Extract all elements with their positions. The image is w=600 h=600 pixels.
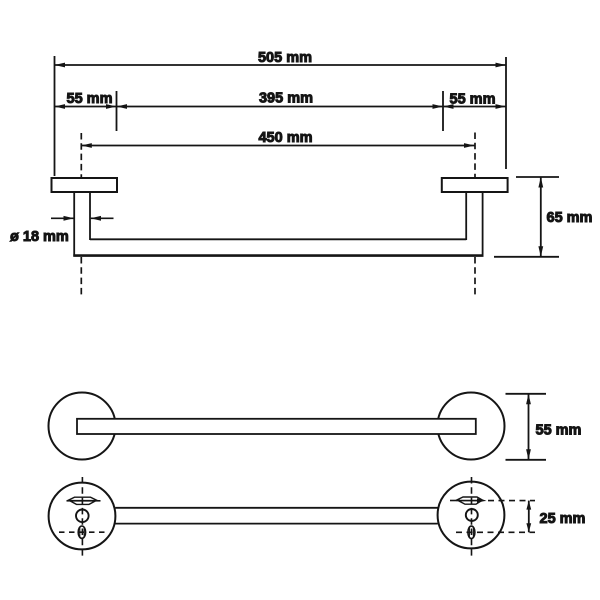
diameter 18 leader line right — [91, 217, 114, 219]
svg-text:25 mm: 25 mm — [540, 511, 586, 527]
arrow at left end of 55 mm segment — [55, 104, 66, 109]
bottom view: right anchor leader arrow — [477, 498, 487, 502]
dimension 450 mm: right arrow — [464, 143, 475, 148]
side view: bar — [77, 419, 476, 434]
left post outer edge — [73, 192, 75, 257]
bottom view: left screw hole — [76, 510, 89, 523]
bottom view: left centerline (dashed) — [81, 477, 83, 557]
dimension 450 mm: left arrow — [81, 143, 92, 148]
tick between left 55 and 395 — [116, 91, 118, 131]
bottom view: right screw body — [468, 526, 475, 538]
svg-text:505 mm: 505 mm — [258, 50, 312, 66]
wall plate left — [52, 178, 118, 192]
centerline of right post (dashed) lower part — [474, 257, 476, 298]
dimension 505 mm: left arrow — [55, 63, 66, 68]
arrow at right end of 55 mm segment — [496, 104, 507, 109]
centerline of left post (dashed) lower part — [80, 257, 82, 298]
diameter 18 left arrow — [64, 216, 75, 221]
bottom view: left screw body — [78, 526, 85, 538]
bottom view: left screw thread line b — [83, 528, 85, 538]
arrow right end of 395 mm segment — [433, 104, 444, 109]
svg-text:55 mm: 55 mm — [536, 423, 582, 439]
svg-text:395 mm: 395 mm — [259, 91, 313, 107]
left post inner edge — [89, 192, 91, 240]
25 mm dimension line — [528, 501, 530, 533]
arrow left end of 395 mm segment — [117, 104, 128, 109]
55 mm (rosette) top tick — [506, 393, 547, 395]
arrow left end of right 55 mm segment — [443, 104, 454, 109]
bottom view: left screw thread line a — [79, 528, 81, 538]
bottom view: left wall anchor whisker right — [94, 500, 101, 502]
65 mm top arrow — [538, 177, 543, 188]
centerline of left post (dashed) upper part — [80, 133, 82, 178]
diameter 18 right arrow — [91, 216, 102, 221]
dimension 450 mm: line — [81, 145, 474, 147]
centerline of right post (dashed) upper part — [474, 133, 476, 179]
svg-text:65 mm: 65 mm — [547, 210, 593, 226]
side view: right rosette circle — [438, 393, 505, 460]
bottom view: left wall anchor lower shell — [70, 501, 96, 505]
bottom view: right wall anchor whisker left — [450, 500, 460, 502]
tick between 395 and right 55 — [442, 91, 444, 131]
diameter 18 leader line left — [51, 217, 74, 219]
front view: right extension line — [505, 57, 507, 169]
bar bottom edge — [73, 254, 483, 257]
bottom view: left wall anchor upper shell — [68, 497, 98, 500]
wall plate right — [442, 178, 508, 192]
bottom view: right screw hole — [466, 509, 478, 521]
bottom view: right rosette circle — [438, 482, 505, 549]
front view: left extension line — [54, 56, 56, 176]
bottom view: right centerline (dashed) — [471, 477, 473, 558]
bottom view: left wall anchor whisker left — [67, 500, 73, 502]
25 mm bottom arrow — [526, 523, 531, 532]
55 mm (rosette) bottom tick — [506, 459, 547, 461]
65 mm dimension bottom tick — [494, 256, 559, 258]
25 mm bottom dashed leader — [456, 531, 535, 533]
bottom view: left screw axis (dashed) — [59, 531, 107, 533]
dimension 505 mm: line — [55, 64, 507, 66]
bottom view: right screw thread line b — [472, 528, 474, 538]
bottom view: bar bottom edge — [115, 523, 438, 525]
right post inner edge — [465, 192, 467, 240]
65 mm dimension line — [540, 177, 542, 257]
svg-text:55 mm: 55 mm — [450, 92, 496, 108]
bottom view: left rosette circle — [49, 483, 116, 550]
bottom view: right wall anchor upper shell — [456, 497, 483, 500]
bottom view: bar top edge — [115, 507, 438, 509]
bar top edge — [90, 238, 466, 240]
side view: left rosette circle — [49, 393, 116, 460]
bottom view: right wall anchor lower shell — [459, 501, 482, 505]
55 mm (rosette) top arrow — [526, 394, 531, 405]
25 mm top arrow — [526, 501, 531, 510]
65 mm dimension top tick — [516, 176, 559, 178]
25 mm top dashed leader — [488, 500, 535, 502]
dimension row 55/395/55: line — [55, 106, 507, 108]
55 mm (rosette) bottom arrow — [526, 449, 531, 460]
bottom view: right screw thread line a — [468, 528, 470, 538]
svg-text:55 mm: 55 mm — [67, 91, 113, 107]
arrow right end of left 55 mm segment — [106, 104, 117, 109]
65 mm bottom arrow — [538, 246, 543, 256]
55 mm (rosette) dimension line — [528, 394, 530, 460]
dimension 505 mm: right arrow — [496, 63, 507, 68]
svg-text:ø 18 mm: ø 18 mm — [10, 229, 69, 245]
svg-text:450 mm: 450 mm — [258, 130, 312, 146]
right post outer edge — [482, 192, 484, 257]
